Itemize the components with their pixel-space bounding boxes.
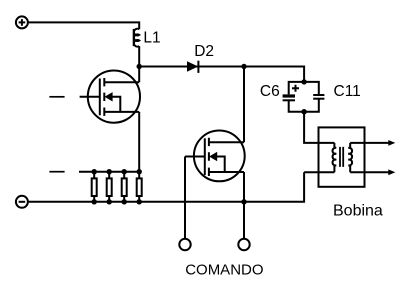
svg-text:L1: L1 bbox=[143, 29, 160, 46]
node: R4 top junction dot bbox=[137, 169, 142, 174]
transformer T1 secondary winding bbox=[348, 143, 352, 172]
node: junction dot below L1 bbox=[137, 64, 142, 69]
capacitor C11 (right branch) bbox=[304, 82, 324, 112]
resistor R1 bbox=[92, 172, 97, 202]
terminal: COMANDO left bbox=[179, 239, 190, 250]
wire: bottom rail corner to transformer primary bottom lead bbox=[304, 171, 334, 173]
svg-text:D2: D2 bbox=[194, 43, 214, 60]
node: R2 bottom junction dot bbox=[107, 199, 112, 204]
node: R1 bottom junction dot bbox=[92, 199, 97, 204]
mosfet Q2 bbox=[185, 131, 245, 182]
resistor R2 bbox=[107, 172, 112, 202]
dash: stub left of resistor rail bbox=[49, 171, 64, 173]
node: R3 bottom junction dot bbox=[122, 199, 127, 204]
svg-text:COMANDO: COMANDO bbox=[185, 262, 263, 279]
wire: Q2 gate down to terminal bbox=[184, 157, 186, 239]
node: R3 top junction dot bbox=[122, 169, 127, 174]
mosfet Q1 bbox=[80, 71, 140, 123]
resistor R3 bbox=[122, 172, 127, 202]
capacitor C6 (electrolytic, left branch) bbox=[283, 82, 305, 112]
wire: cap bottom node down to transformer primary top lead bbox=[304, 112, 334, 143]
wire: Q2 drain up to diode rail node bbox=[243, 67, 245, 143]
inductor L1 bbox=[134, 29, 140, 47]
wire inductor bottom to node bbox=[138, 46, 140, 66]
wire: secondary output top with arrow bbox=[350, 140, 395, 146]
node: capacitor top node dot bbox=[301, 79, 306, 84]
diode D2 bbox=[187, 61, 198, 73]
terminal + (positive supply) bbox=[16, 16, 28, 28]
transformer T1 box bbox=[319, 127, 365, 186]
node: R1 top junction dot bbox=[92, 169, 97, 174]
wire from + to inductor top bbox=[28, 22, 139, 29]
node: R4 bottom junction dot bbox=[137, 199, 142, 204]
terminal - (negative supply) bbox=[16, 196, 28, 208]
node: R2 top junction dot bbox=[107, 169, 112, 174]
resistor R4 bbox=[137, 172, 142, 202]
node: junction dot above Q2 drain bbox=[241, 64, 246, 69]
wire: bottom rail from - to transformer bbox=[28, 172, 304, 202]
wire: Q1 source down to resistor rail bbox=[138, 112, 140, 172]
wire: resistor top rail bbox=[79, 171, 139, 173]
dash: gate stub left of Q1 bbox=[49, 96, 64, 98]
terminal: COMANDO right bbox=[238, 239, 249, 250]
wire: Q2 source down through rail to terminal bbox=[243, 172, 245, 239]
wire: Q1 drain up to node bbox=[138, 67, 140, 83]
svg-text:Bobina: Bobina bbox=[333, 203, 383, 220]
transformer core bbox=[340, 147, 343, 167]
svg-text:C11: C11 bbox=[334, 83, 361, 100]
transformer T1 primary winding bbox=[333, 143, 337, 172]
svg-text:C6: C6 bbox=[260, 83, 280, 100]
wire: secondary output bottom with arrow bbox=[350, 169, 395, 175]
node: Q2 source junction on bottom rail bbox=[241, 199, 246, 204]
node: capacitor bottom node dot bbox=[301, 109, 306, 114]
wire: diode rail from node to capacitor corner bbox=[139, 67, 304, 82]
